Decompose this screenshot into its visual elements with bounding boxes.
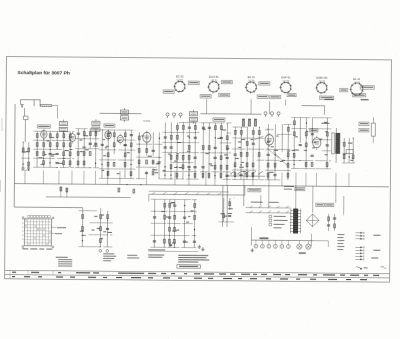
- svg-text:EF 41: EF 41: [248, 75, 256, 79]
- svg-text:4/6 W: 4/6 W: [211, 80, 216, 82]
- svg-text:EABC 80: EABC 80: [316, 76, 328, 80]
- svg-text:(12 W): (12 W): [248, 80, 255, 82]
- svg-text:(12 W): (12 W): [319, 81, 326, 83]
- svg-text:ECH81: ECH81: [143, 121, 151, 123]
- svg-text:(12jW): (12jW): [177, 79, 183, 81]
- svg-text:(12 W): (12 W): [283, 80, 290, 82]
- svg-text:(12 W): (12 W): [354, 82, 361, 84]
- svg-text:Schaltplan für 3007 Ph: Schaltplan für 3007 Ph: [17, 70, 70, 76]
- svg-text:⁴⁵⁄₅₆: ⁴⁵⁄₅₆: [380, 265, 387, 269]
- svg-text:ECH 81: ECH 81: [209, 75, 219, 79]
- svg-text:EC 92: EC 92: [176, 75, 184, 79]
- svg-text:EABC80: EABC80: [265, 128, 274, 131]
- svg-text:EAF 42: EAF 42: [281, 76, 291, 80]
- svg-text:EL 41: EL 41: [353, 77, 360, 81]
